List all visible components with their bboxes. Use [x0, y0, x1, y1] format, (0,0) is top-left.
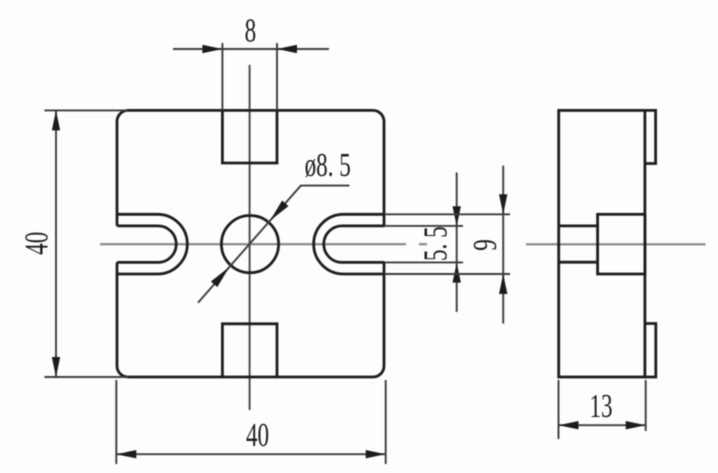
- dimension 5.5 line: [456, 173, 458, 312]
- center hole circle: [221, 216, 278, 273]
- dimension 13 extension lines: [559, 380, 646, 439]
- plate outline front view: [117, 110, 384, 377]
- dimension 13 arrows: [559, 421, 646, 429]
- side view main body: [559, 110, 645, 377]
- bottom notch: [222, 324, 277, 377]
- right slot outer: [314, 214, 385, 274]
- dimension 9 line: [502, 166, 504, 324]
- svg-text:13: 13: [589, 388, 612, 425]
- svg-text:9: 9: [467, 239, 504, 251]
- dimension 40 bottom extension lines: [116, 380, 385, 464]
- dimension 40 left line: [55, 110, 57, 377]
- dimension 40 bottom arrows: [116, 450, 385, 458]
- svg-text:40: 40: [18, 232, 55, 255]
- svg-text:ø8. 5: ø8. 5: [305, 147, 351, 184]
- vertical centerline front view: [249, 65, 251, 410]
- svg-text:40: 40: [246, 417, 269, 454]
- horizontal centerline side view: [526, 243, 706, 245]
- dimension 40 left arrows: [52, 110, 60, 377]
- dimension 40 bottom line: [116, 453, 385, 455]
- side view slot lines: [559, 226, 598, 262]
- side view bottom-right tab: [645, 324, 656, 378]
- diameter leader line: [198, 186, 350, 303]
- dimension 8 line: [173, 48, 329, 50]
- dimension 5.5 extension lines: [385, 226, 464, 263]
- diameter leader arrows: [211, 201, 289, 288]
- dimension 5.5 arrows: [453, 206, 461, 282]
- dimension 8 extension lines: [222, 43, 277, 110]
- dimension 13 line: [559, 424, 646, 426]
- left slot inner: [117, 226, 176, 263]
- svg-text:8: 8: [245, 12, 257, 49]
- left slot outer: [117, 214, 187, 274]
- dimension 9 arrows: [499, 194, 507, 294]
- dimension 8 arrows: [202, 45, 297, 53]
- side view middle block: [598, 214, 645, 274]
- right slot inner: [324, 226, 385, 263]
- side view top-right tab: [645, 110, 656, 163]
- top notch: [222, 110, 277, 163]
- horizontal centerline front view: [100, 243, 427, 245]
- svg-text:5. 5: 5. 5: [417, 226, 454, 261]
- dimension 9 extension lines: [385, 214, 511, 274]
- dimension 40 left extension lines: [44, 110, 128, 377]
